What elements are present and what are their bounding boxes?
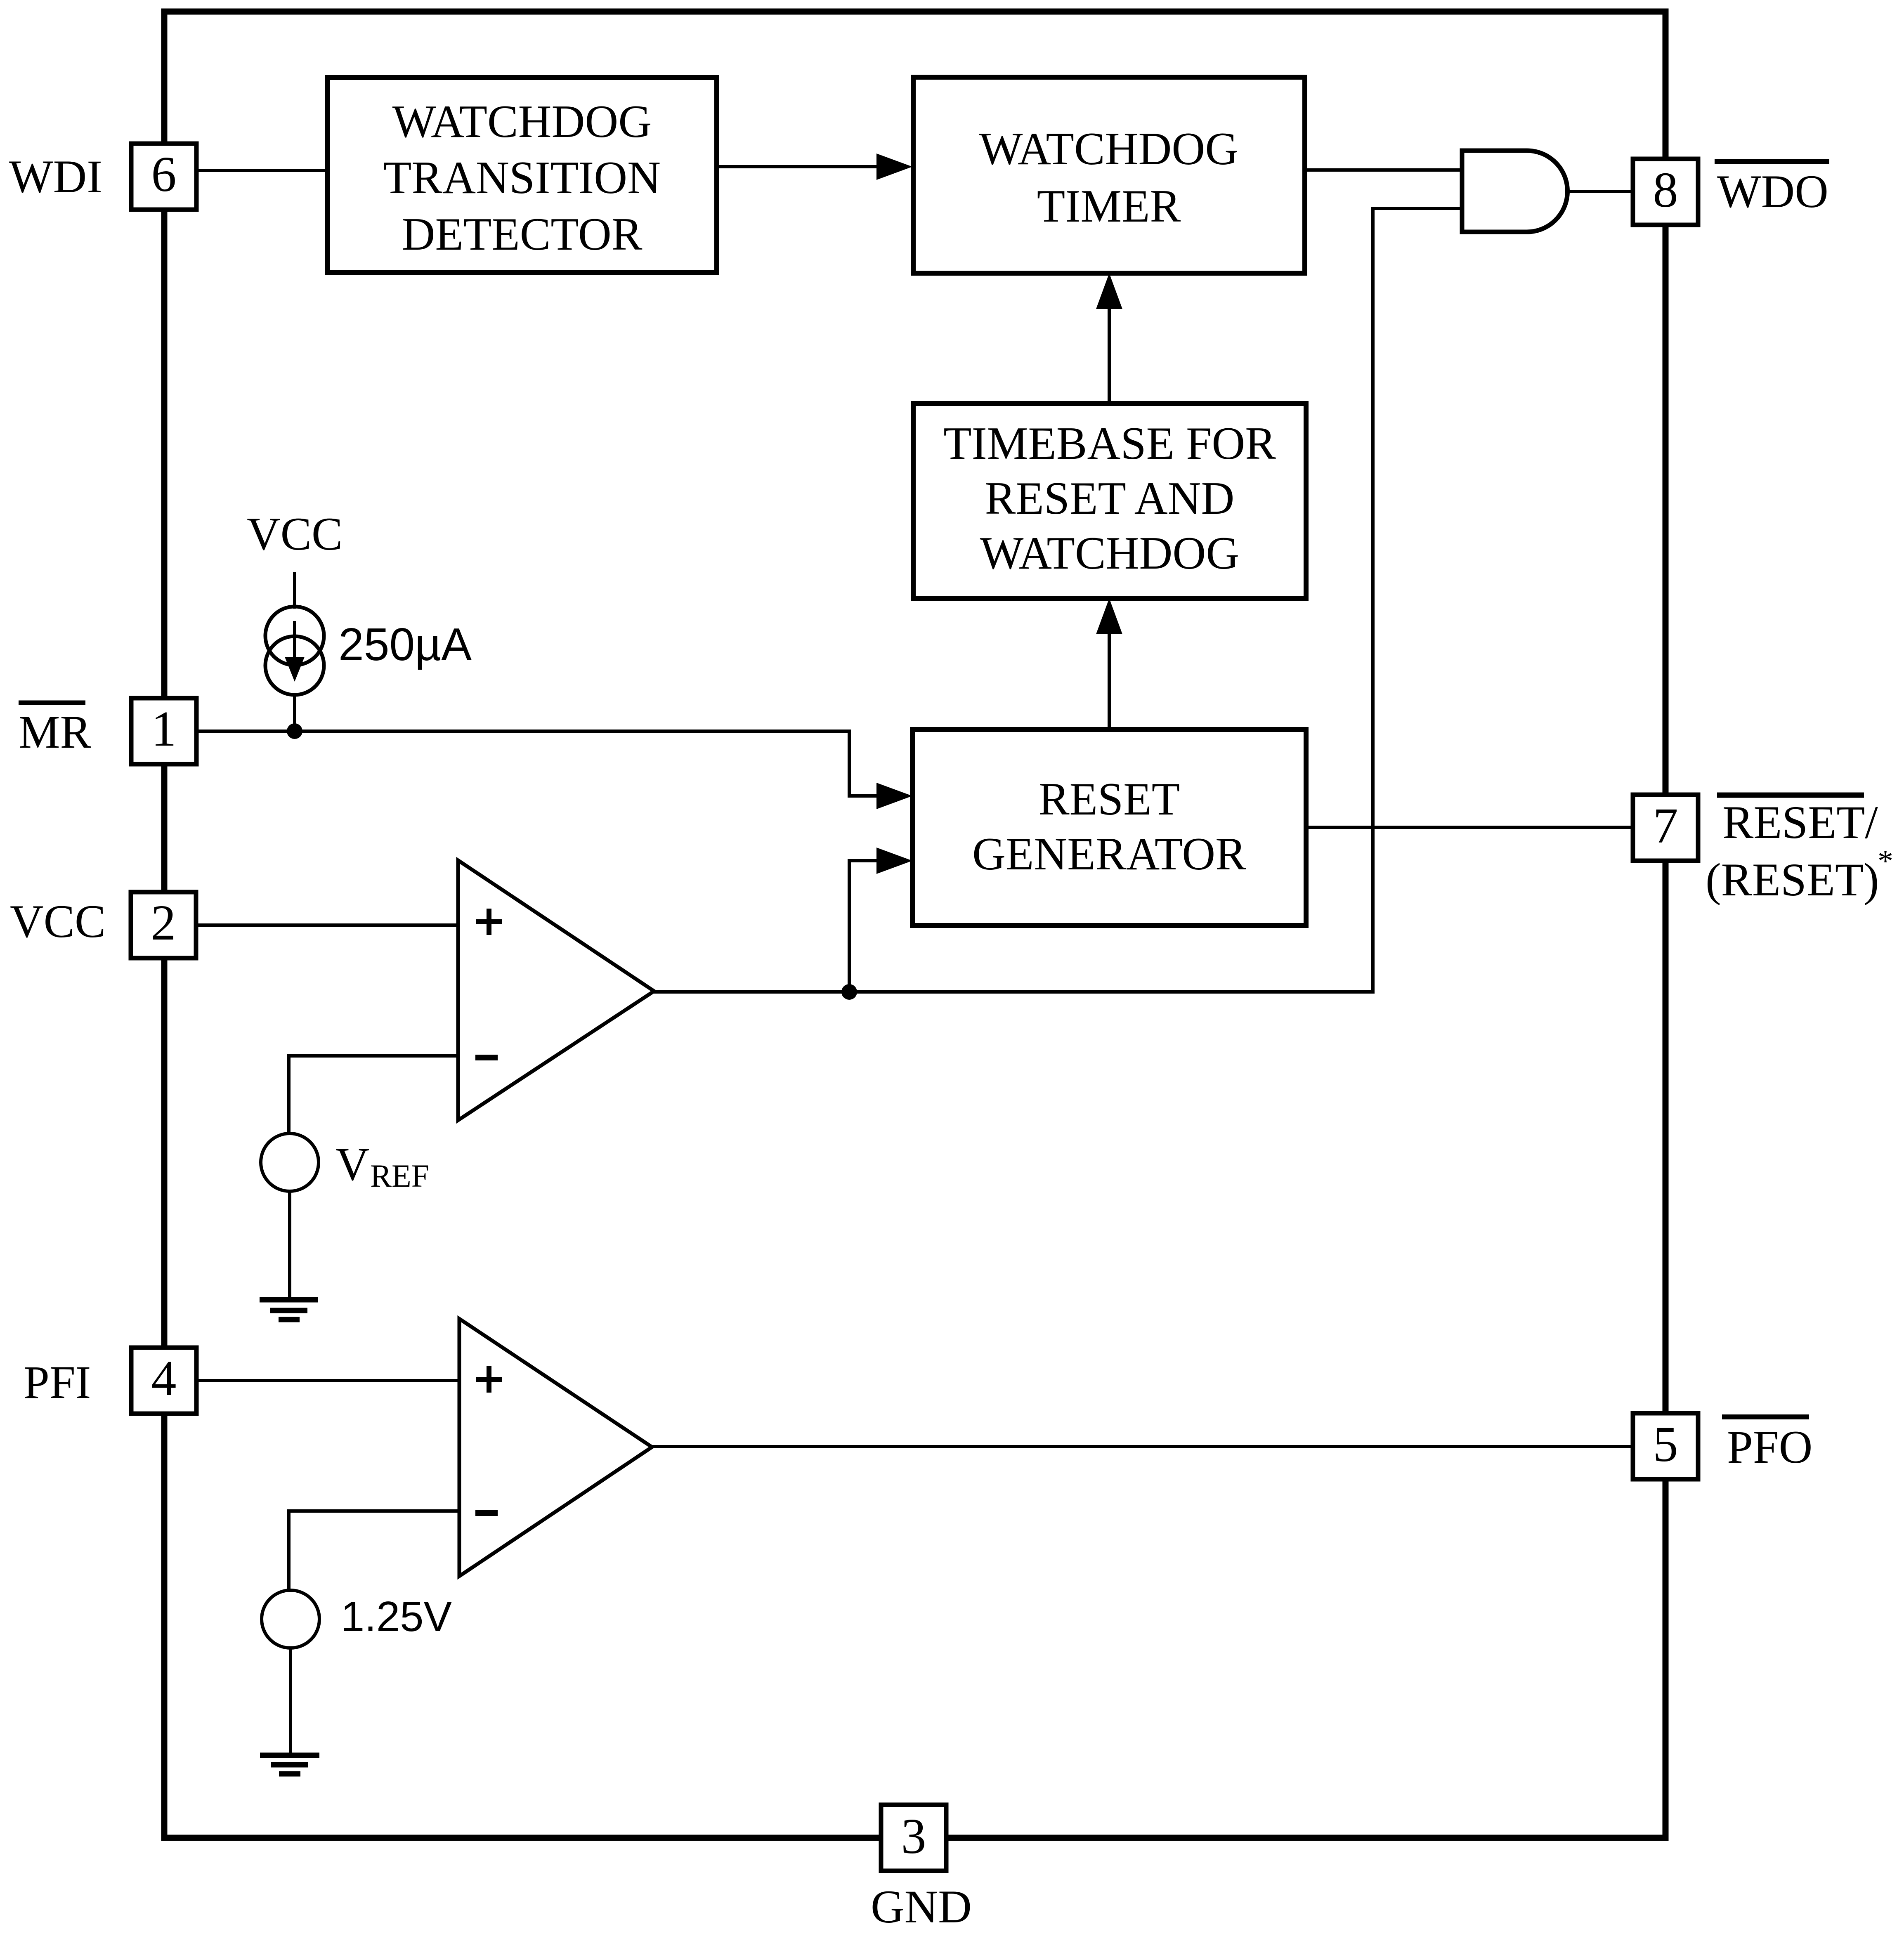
pin 5 box <box>1633 1413 1698 1479</box>
arrowhead into reset generator lower input <box>876 848 912 874</box>
svg-text:PFO: PFO <box>1727 1421 1812 1473</box>
wire MR net: pin1 to reset generator input <box>196 731 877 796</box>
pin 6 box <box>131 144 196 210</box>
VREF source circle <box>261 1133 319 1191</box>
MR overline <box>19 701 85 705</box>
wire VCC to current source <box>293 572 296 609</box>
comparator U2 triangle <box>459 1319 652 1576</box>
svg-text:WATCHDOG: WATCHDOG <box>980 528 1239 579</box>
wire 1.25V to ground <box>289 1648 292 1755</box>
wire pin2 to comparator1 plus input <box>196 923 458 927</box>
current source arrow (down) <box>293 621 296 657</box>
svg-text:250µA: 250µA <box>338 619 472 670</box>
wire reset generator to timebase with up arrow <box>1108 632 1111 730</box>
watchdog transition detector box <box>327 78 717 273</box>
svg-text:1: 1 <box>151 701 177 757</box>
svg-text:MR: MR <box>19 706 91 758</box>
pin 1 box <box>131 698 196 764</box>
pin 4 box <box>131 1348 196 1414</box>
plus sign comparator2 <box>476 1377 502 1382</box>
svg-text:1.25V: 1.25V <box>341 1593 452 1640</box>
pin 7 box <box>1633 795 1698 861</box>
svg-text:TIMER: TIMER <box>1037 181 1181 232</box>
svg-text:(RESET): (RESET) <box>1706 854 1879 906</box>
pin 8 box <box>1633 159 1698 225</box>
svg-text:8: 8 <box>1653 162 1678 218</box>
wire current source to MR junction <box>293 695 296 731</box>
svg-text:GENERATOR: GENERATOR <box>972 829 1246 880</box>
current source symbol (two overlapping circles) <box>265 607 324 665</box>
reset generator box <box>912 730 1306 926</box>
pin 2 box <box>131 892 196 958</box>
svg-text:GND: GND <box>871 1881 972 1933</box>
svg-text:V: V <box>335 1138 369 1190</box>
wire WTD to watchdog timer <box>717 165 879 168</box>
junction dot MR / current source <box>287 723 302 739</box>
arrowhead into watchdog timer <box>876 153 912 180</box>
RESET overline <box>1717 793 1864 798</box>
svg-text:*: * <box>1878 844 1893 878</box>
pin 3 box <box>881 1805 946 1871</box>
svg-text:5: 5 <box>1653 1417 1678 1472</box>
ground symbol 2 <box>260 1753 319 1758</box>
svg-text:6: 6 <box>151 146 177 202</box>
ground symbol 1 <box>260 1297 318 1303</box>
wire comparator2 output to pin 5 <box>652 1445 1633 1448</box>
AND gate U3 <box>1462 151 1567 232</box>
junction dot comparator1 output <box>841 984 857 1000</box>
wire comparator1 minus input from VREF <box>289 1056 458 1134</box>
svg-text:RESET AND: RESET AND <box>985 473 1235 524</box>
wire junction up to reset generator lower input <box>849 861 877 992</box>
arrowhead into reset generator upper input <box>876 783 912 809</box>
svg-text:4: 4 <box>151 1350 177 1406</box>
svg-text:DETECTOR: DETECTOR <box>402 209 643 260</box>
svg-text:VCC: VCC <box>247 508 343 560</box>
1.25V source circle <box>262 1590 319 1648</box>
WDO overline <box>1715 159 1829 164</box>
svg-text:3: 3 <box>901 1809 926 1864</box>
svg-text:TIMEBASE FOR: TIMEBASE FOR <box>943 418 1276 469</box>
svg-text:RESET: RESET <box>1039 774 1180 825</box>
watchdog timer box <box>913 77 1305 273</box>
comparator U1 triangle <box>458 860 654 1120</box>
wire comparator1 output to feedback and AND gate <box>654 208 1462 992</box>
svg-text:WATCHDOG: WATCHDOG <box>979 123 1238 175</box>
wire pin4 to comparator2 plus input <box>196 1379 459 1382</box>
wire reset generator output to pin 7 <box>1306 826 1633 829</box>
svg-text:WDI: WDI <box>9 151 102 203</box>
wire AND gate output to pin 8 <box>1566 190 1633 193</box>
minus sign comparator1 <box>475 1055 498 1060</box>
outer IC boundary rectangle <box>164 12 1665 1838</box>
svg-text:2: 2 <box>151 895 176 951</box>
svg-text:VCC: VCC <box>10 896 106 947</box>
svg-text:7: 7 <box>1653 798 1678 854</box>
plus sign comparator1 <box>476 919 502 924</box>
wire VREF to ground <box>288 1191 291 1300</box>
svg-text:TRANSITION: TRANSITION <box>383 152 661 203</box>
wire pin6 to watchdog transition detector <box>196 169 327 172</box>
svg-text:RESET/: RESET/ <box>1722 797 1878 848</box>
svg-text:REF: REF <box>370 1158 429 1194</box>
PFO overline <box>1722 1414 1809 1419</box>
svg-text:WDO: WDO <box>1717 166 1828 217</box>
wire timebase to watchdog timer with up arrow <box>1108 307 1111 404</box>
wire comparator2 minus input from 1.25V <box>289 1511 459 1591</box>
svg-text:WATCHDOG: WATCHDOG <box>392 96 652 147</box>
timebase for reset and watchdog box <box>913 404 1306 598</box>
minus sign comparator2 <box>475 1510 498 1516</box>
svg-text:PFI: PFI <box>24 1357 91 1408</box>
wire watchdog timer to AND gate top input <box>1304 168 1462 172</box>
